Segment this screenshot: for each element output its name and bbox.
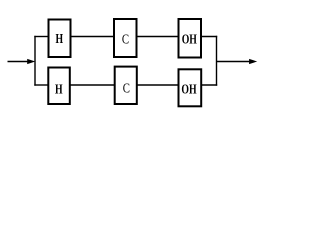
svg-text:C: C [123, 81, 130, 96]
block OH (bottom) [179, 69, 202, 106]
left branch bus (split junction) [34, 36, 36, 86]
svg-text:H: H [56, 32, 64, 47]
block H (top) [49, 20, 71, 58]
wire: bottom H to bottom C [70, 84, 116, 86]
block C (bottom) [115, 67, 137, 104]
block C (top) [114, 19, 137, 57]
wire: bus to top H [34, 36, 49, 38]
right branch bus (merge junction) [216, 36, 218, 86]
wire: top H to top C [71, 36, 116, 38]
block OH (top) [179, 19, 202, 58]
wire: bus to bottom H [34, 84, 49, 86]
wire: bottom OH to right bus [201, 84, 217, 86]
wire: bottom C to bottom OH [137, 84, 180, 86]
svg-text:OH: OH [181, 82, 196, 97]
svg-text:OH: OH [182, 32, 197, 47]
output arrow [217, 59, 258, 64]
wire: top OH to right bus [201, 36, 217, 38]
svg-text:C: C [122, 32, 129, 47]
input arrow [8, 59, 36, 64]
block H (bottom) [48, 68, 70, 105]
svg-text:H: H [55, 83, 63, 98]
wire: top C to top OH [137, 36, 180, 38]
